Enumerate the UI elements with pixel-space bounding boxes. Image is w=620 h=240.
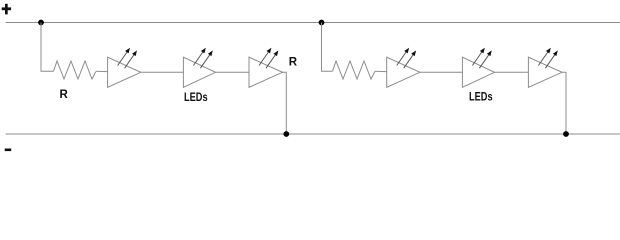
- wire branch 2 drop from top rail: [322, 23, 333, 72]
- junction dot branch 1 bottom: [283, 131, 289, 137]
- svg-text:LEDs: LEDs: [184, 90, 208, 104]
- LED D6: [528, 48, 562, 88]
- plus terminal label: [2, 4, 11, 15]
- wire resistor 2 to LED D4: [375, 70, 387, 72]
- wire D2 to D3: [216, 71, 250, 73]
- wire branch 2 to bottom rail: [562, 72, 566, 134]
- svg-text:R: R: [60, 89, 69, 101]
- junction dot branch 2 top: [319, 20, 325, 26]
- wire D4 to D5: [420, 71, 463, 73]
- junction dot branch 1 top: [38, 20, 44, 26]
- wire resistor to LED D1: [96, 70, 108, 72]
- wire branch 1 drop from top rail: [41, 23, 54, 72]
- LED D3: [249, 48, 283, 88]
- wire branch 1 to bottom rail: [283, 72, 287, 134]
- svg-text:LEDs: LEDs: [469, 90, 493, 104]
- LED D5: [462, 48, 494, 88]
- LED D2: [183, 48, 215, 88]
- wire bottom negative rail: [6, 133, 620, 135]
- minus terminal label: [5, 149, 12, 152]
- svg-text:R: R: [289, 57, 298, 69]
- wire D1 to D2: [141, 71, 184, 73]
- junction dot branch 2 bottom: [563, 131, 569, 137]
- wire D5 to D6: [495, 71, 529, 73]
- LED D1: [108, 48, 141, 88]
- LED D4: [387, 48, 420, 88]
- resistor R branch 2: [333, 61, 376, 79]
- resistor R branch 1: [54, 61, 97, 79]
- wire top positive rail: [6, 22, 620, 24]
